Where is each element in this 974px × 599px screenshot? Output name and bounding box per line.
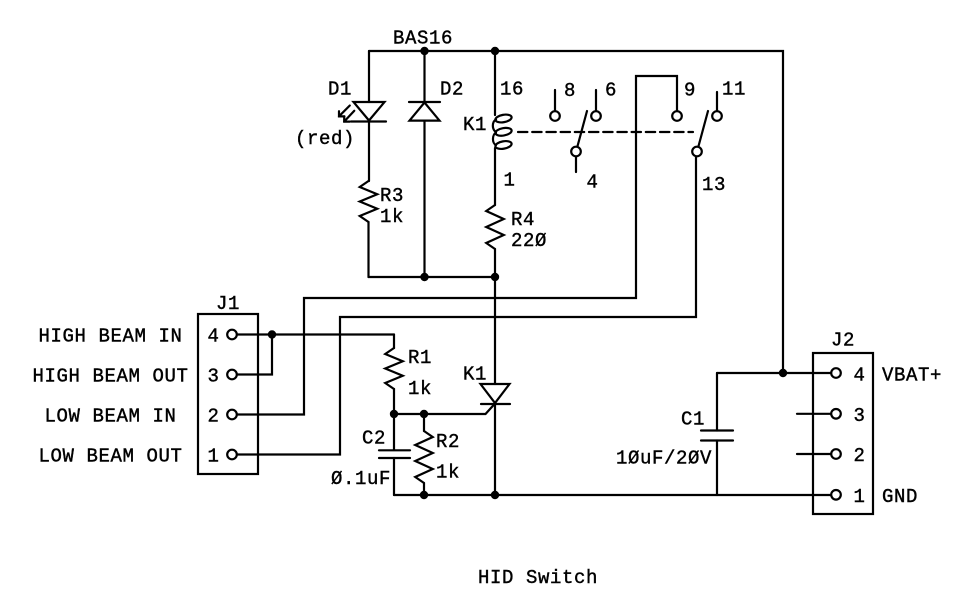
- wire D1 cathode to R3: [368, 122, 370, 182]
- junction dot pin4/pin3: [268, 330, 276, 338]
- svg-text:R4: R4: [511, 209, 535, 231]
- contact circle pin 11: [712, 111, 722, 121]
- svg-text:HIGH BEAM IN: HIGH BEAM IN: [38, 326, 182, 348]
- svg-text:BAS16: BAS16: [393, 28, 453, 50]
- svg-text:HIGH BEAM OUT: HIGH BEAM OUT: [32, 366, 188, 388]
- dashed actuation line: [518, 131, 693, 133]
- svg-text:LOW BEAM IN: LOW BEAM IN: [44, 406, 176, 428]
- svg-text:1k: 1k: [380, 206, 404, 228]
- connector J2 box: [813, 353, 873, 514]
- svg-text:1: 1: [208, 446, 220, 468]
- wire SCR cathode down: [494, 404, 496, 495]
- svg-text:1: 1: [504, 170, 516, 192]
- svg-text:3: 3: [208, 366, 220, 388]
- svg-text:1k: 1k: [408, 378, 432, 400]
- wire top bus BAS16 net: [369, 51, 783, 373]
- relay contact pin 8 stub: [554, 90, 556, 111]
- svg-text:3: 3: [854, 405, 866, 427]
- wire bus to SCR anode: [494, 277, 496, 384]
- junction dot VBAT: [779, 369, 787, 377]
- pin circle J2-4: [831, 368, 841, 378]
- wire gate bus R1/C2/R2 to SCR gate: [394, 404, 495, 415]
- pin circle J1-4: [227, 330, 237, 340]
- svg-text:2: 2: [208, 406, 220, 428]
- svg-text:1k: 1k: [436, 462, 460, 484]
- relay contact pin 11 stub: [716, 92, 718, 111]
- svg-text:D2: D2: [440, 79, 464, 101]
- contact circle pin 8: [550, 111, 560, 121]
- pin circle J1-2: [227, 410, 237, 420]
- capacitor C1: [701, 373, 733, 495]
- junction dot R1/C2: [390, 410, 398, 418]
- junction dot SCR bottom: [491, 491, 499, 499]
- SCR K1 driver: [481, 384, 511, 404]
- svg-text:D1: D1: [328, 79, 352, 101]
- pin circle J2-3: [831, 409, 841, 419]
- wire D1 anode: [368, 51, 370, 102]
- pin circle J2-1: [831, 490, 841, 500]
- svg-text:C1: C1: [681, 409, 705, 431]
- wire net LOW BEAM IN : J1 pin2 to contact 9: [238, 76, 678, 415]
- svg-text:GND: GND: [882, 486, 918, 508]
- resistor R3: [360, 181, 378, 222]
- svg-text:K1: K1: [463, 364, 487, 386]
- svg-text:LOW BEAM OUT: LOW BEAM OUT: [38, 446, 182, 468]
- connector J1 box: [198, 314, 258, 474]
- wire R1 bottom lead: [393, 389, 395, 414]
- svg-text:C2: C2: [362, 428, 386, 450]
- relay contact pin 4 stub: [575, 156, 577, 172]
- wire J2 pin2 stub: [797, 453, 831, 455]
- svg-text:9: 9: [684, 80, 696, 102]
- svg-text:K1: K1: [463, 114, 487, 136]
- svg-text:22Ø: 22Ø: [511, 230, 547, 252]
- wire coil to R4: [494, 148, 496, 205]
- svg-text:4: 4: [587, 172, 599, 194]
- relay coil K1: [493, 113, 512, 150]
- contact circle pin 13: [692, 147, 702, 157]
- svg-text:J1: J1: [216, 293, 240, 315]
- svg-text:4: 4: [854, 364, 866, 386]
- junction dot D2 bottom: [420, 273, 428, 281]
- wire K1 coil top pin 16: [494, 51, 496, 115]
- wire D2 bottom: [423, 121, 425, 277]
- relay contact pin 6 stub: [595, 90, 597, 111]
- wire J2 pin3 stub: [797, 413, 831, 415]
- svg-text:Ø.1uF: Ø.1uF: [331, 468, 391, 490]
- svg-text:HID Switch: HID Switch: [478, 567, 598, 589]
- junction dot R4 bottom: [491, 273, 499, 281]
- contact circle pin 9: [672, 111, 682, 121]
- svg-text:R3: R3: [380, 185, 404, 207]
- wire middle bus (D1/D2/R4 cathode bus): [369, 276, 496, 278]
- wire R4 bottom: [494, 249, 496, 277]
- svg-text:1: 1: [854, 486, 866, 508]
- resistor R1: [385, 348, 403, 389]
- contact circle pin 6: [591, 111, 601, 121]
- wire ground bus bottom: [394, 494, 831, 496]
- contact circle pin 4: [571, 147, 581, 157]
- pin circle J1-1: [227, 450, 237, 460]
- switch arm S1: [577, 111, 587, 148]
- wire J1 pin3 up to pin4 net: [238, 335, 273, 375]
- wire D2 top: [423, 51, 425, 102]
- wire R3 bottom: [367, 222, 369, 277]
- junction dot R2 top: [420, 410, 428, 418]
- svg-text:2: 2: [854, 445, 866, 467]
- junction dot R2 bottom: [420, 491, 428, 499]
- svg-text:11: 11: [722, 79, 746, 101]
- svg-text:13: 13: [702, 174, 726, 196]
- svg-text:16: 16: [500, 79, 524, 101]
- svg-text:J2: J2: [831, 330, 855, 352]
- wire net LOW BEAM OUT : J1 pin1 to contact 13: [238, 157, 697, 455]
- wire J1 pin4 to R1: [238, 333, 395, 335]
- junction dot K1 coil top: [491, 47, 499, 55]
- svg-text:R2: R2: [436, 431, 460, 453]
- svg-text:R1: R1: [408, 347, 432, 369]
- svg-text:4: 4: [208, 326, 220, 348]
- svg-text:8: 8: [564, 80, 576, 102]
- capacitor C2: [379, 414, 410, 495]
- wire VBAT net to J2 pin4: [717, 372, 831, 374]
- wire R1 top lead: [393, 335, 395, 349]
- diode D2 BAS16: [409, 102, 440, 121]
- pin circle J1-3: [227, 370, 237, 380]
- diode D1 (LED): [339, 102, 386, 122]
- resistor R2: [415, 414, 433, 495]
- svg-text:(red): (red): [295, 128, 355, 150]
- svg-text:1ØuF/2ØV: 1ØuF/2ØV: [616, 448, 712, 470]
- pin circle J2-2: [831, 449, 841, 459]
- svg-text:VBAT+: VBAT+: [882, 364, 942, 386]
- resistor R4: [486, 205, 504, 249]
- svg-text:6: 6: [605, 80, 617, 102]
- junction dot D2 top: [420, 47, 428, 55]
- switch arm S2: [698, 111, 708, 148]
